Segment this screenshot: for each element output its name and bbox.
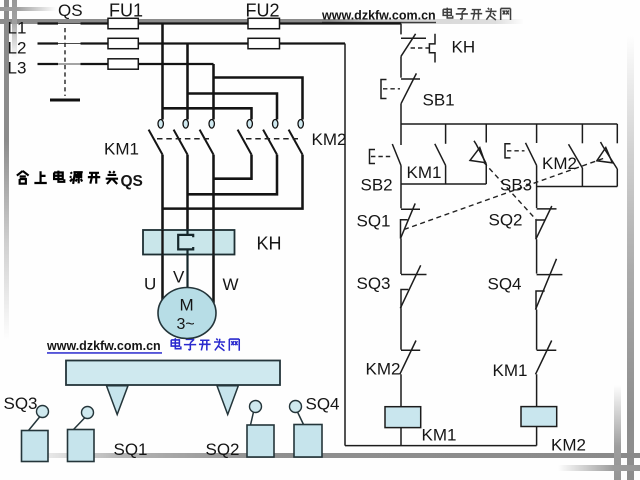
- contact KM2 NC fixed bar: [401, 349, 420, 351]
- SQ3 blade: [400, 265, 420, 308]
- wire bus to SB2: [400, 124, 402, 145]
- thermal relay KH heater box: [143, 230, 235, 255]
- wire bus horizontal: [401, 123, 617, 125]
- wire KM2 mid pole to V: [188, 155, 278, 195]
- contact KM2 aux blade: [569, 144, 583, 168]
- svg-text:U: U: [144, 275, 156, 294]
- motor M 3~: [158, 288, 216, 339]
- svg-text:KM1: KM1: [407, 163, 442, 182]
- svg-text:QS: QS: [121, 173, 143, 190]
- svg-text:SQ3: SQ3: [357, 274, 391, 293]
- svg-text:SB3: SB3: [500, 176, 532, 195]
- SQ3 notch tick: [401, 290, 408, 309]
- limit switch SQ4 NC fixed bar: [537, 274, 563, 276]
- wire KM2NC to KM1 coil: [400, 374, 402, 406]
- svg-text:W: W: [223, 275, 239, 294]
- wire KH to SB1: [400, 56, 402, 77]
- svg-text:SQ1: SQ1: [357, 212, 391, 231]
- svg-text:3~: 3~: [177, 316, 195, 333]
- SQ4 notch tick: [536, 291, 545, 310]
- svg-text:KH: KH: [452, 38, 476, 57]
- wire SQ1 to SQ3: [400, 239, 402, 275]
- svg-text:L2: L2: [8, 39, 27, 58]
- contactor KM1 terminal ovals: [158, 120, 303, 129]
- contact KM1 NC blade: [536, 341, 552, 375]
- wire KM2 left pole to W: [214, 155, 252, 179]
- limit switch SQ3 roller: [37, 406, 49, 418]
- svg-text:SQ3: SQ3: [4, 394, 38, 413]
- switch QS linkage dashed: [64, 28, 66, 96]
- wire bus drop SB3: [536, 124, 538, 143]
- switch QS handle bar: [50, 99, 80, 102]
- wire W through KH: [212, 230, 214, 255]
- coil KM1: [385, 407, 421, 428]
- SQ1 body: [68, 430, 95, 462]
- contact KH NC: fixed bar: [401, 37, 426, 39]
- svg-text:KM2: KM2: [366, 360, 401, 379]
- wire U phase down from KM1: [161, 155, 164, 300]
- svg-text:L3: L3: [8, 59, 27, 78]
- SQ2 blade: [536, 206, 552, 239]
- dashed diagonal SQ2 link: [484, 162, 537, 220]
- contact SQ1-NO triangle: [597, 148, 613, 163]
- SQ1 blade: [401, 203, 416, 238]
- svg-text:FU1: FU1: [109, 0, 143, 20]
- SQ1 lever: [74, 418, 86, 430]
- wire SQ2 to SQ4: [536, 239, 538, 273]
- wire left rail from FU2-L2: [344, 44, 346, 446]
- SQ1 notch tick: [401, 220, 408, 239]
- svg-text:L1: L1: [8, 18, 27, 37]
- svg-text:KM1: KM1: [493, 361, 528, 380]
- wire L1 horizontal: [38, 22, 402, 24]
- KH heater detour symbol: [429, 34, 435, 63]
- SQ4 blade: [536, 259, 557, 310]
- caption: heshang dianyuan kaiguan QS (bold): [17, 171, 118, 184]
- wire KM1 coil to bottom rail: [400, 428, 402, 446]
- contact KM2 NC blade: [400, 341, 416, 375]
- dashed link KH: [411, 47, 429, 49]
- wire right branch to SQ2: [536, 187, 538, 209]
- wire SQ2NO lower stub: [485, 164, 487, 184]
- wire bus drop KM1aux: [445, 124, 447, 144]
- wire KM2aux lower stub: [581, 168, 583, 187]
- switch QS blades (thin): [58, 24, 81, 65]
- button SB3 NO blade: [526, 143, 537, 166]
- SQ4 lever: [298, 412, 304, 425]
- svg-text:KM2: KM2: [312, 130, 347, 149]
- limit switch SQ4 roller: [290, 401, 302, 413]
- wire SB1 to bus: [400, 104, 402, 124]
- button SB1 blade: [401, 73, 416, 103]
- KM2 linkage dashed: [246, 138, 299, 140]
- svg-text:V: V: [173, 268, 185, 287]
- wire bus drop SQ1NO: [616, 124, 618, 143]
- svg-text:SQ2: SQ2: [206, 440, 240, 459]
- fuse FU2 pole1: [248, 18, 280, 28]
- fuse FU1 pole3: [108, 59, 138, 69]
- wire L2 drop to KM1: [186, 44, 189, 120]
- svg-text:SQ4: SQ4: [306, 395, 340, 414]
- wire bus drop SQ2NO: [485, 124, 487, 143]
- svg-text:KM1: KM1: [422, 426, 457, 445]
- wire SQ4 to KM1NC: [536, 310, 538, 350]
- wire merge bar right branch: [537, 186, 618, 188]
- limit switch SQ3 NC fixed bar: [401, 274, 427, 276]
- watermark top: dianzikaifawang CJK: [443, 8, 510, 20]
- button SB2 cap bracket: [370, 150, 376, 164]
- fuse FU1 pole2: [108, 38, 138, 48]
- dashed link SB3: [507, 150, 525, 152]
- svg-text:SQ1: SQ1: [114, 440, 148, 459]
- wire SQ1NO lower stub: [616, 169, 618, 187]
- wire L3 drop to KM1: [212, 64, 215, 120]
- SQ3 body: [22, 431, 49, 462]
- contactor KM1 main contact blades: [149, 130, 303, 155]
- wire KM1aux lower stub: [445, 165, 447, 184]
- wire L3 horizontal: [38, 63, 214, 65]
- contactor KM2 terminal ovals: [247, 120, 252, 129]
- SQ2 lever: [251, 412, 254, 425]
- button SB1 NC fixed bar: [401, 78, 420, 80]
- wire feed from FU2-L1 down: [400, 24, 402, 35]
- contact SQ2-NO triangle: [470, 148, 485, 163]
- wire SB3 lower stub: [536, 165, 538, 186]
- fuse FU2 pole2: [248, 38, 280, 48]
- wire merge bar left branch: [401, 183, 486, 185]
- svg-text:SB1: SB1: [423, 91, 455, 110]
- limit switch SQ2 NC fixed bar: [537, 208, 557, 210]
- wire bottom rail: [345, 445, 537, 447]
- svg-text:FU2: FU2: [246, 0, 280, 20]
- contact KM1 NC fixed bar: [537, 349, 557, 351]
- contact KM1 aux blade: [435, 144, 446, 166]
- KM1 linkage dashed: [157, 138, 209, 140]
- svg-text:SQ4: SQ4: [488, 275, 522, 294]
- wire SB2 to SQ1: [400, 166, 402, 209]
- wire KM1NC to KM2 coil: [536, 374, 538, 406]
- contact KH NC blade: [401, 34, 416, 57]
- limit switch SQ2 roller: [250, 401, 262, 413]
- wire L2 branch to KM2 mid pole: [188, 94, 278, 120]
- svg-text:SB2: SB2: [361, 176, 393, 195]
- wire W phase down from KM1: [212, 155, 215, 303]
- SQ2 notch tick: [536, 220, 545, 239]
- contactor KM2 main contact blades: [238, 130, 252, 155]
- worktable platform: [66, 361, 280, 386]
- coil KM2: [521, 407, 557, 427]
- button SB2 NO blade: [392, 144, 401, 166]
- wire V phase down from KM1: [186, 155, 189, 235]
- limit switch SQ1 roller: [82, 407, 94, 419]
- svg-text:SQ2: SQ2: [489, 211, 523, 230]
- SQ3 lever: [29, 417, 41, 431]
- dashed link SB2: [371, 156, 392, 158]
- svg-text:www.dzkfw.com.cn: www.dzkfw.com.cn: [46, 339, 161, 353]
- svg-text:www.dzkfw.com.cn: www.dzkfw.com.cn: [321, 9, 436, 23]
- button SB3 cap bracket: [505, 144, 511, 158]
- wire KM2 right pole to U: [163, 155, 303, 209]
- svg-text:M: M: [180, 296, 194, 315]
- dashed diagonal SQ1 link: [404, 158, 606, 230]
- KH heater element jog on V wire: [178, 230, 193, 289]
- watermark bottom: dianzikaifawang CJK: [171, 338, 239, 351]
- svg-text:KH: KH: [257, 234, 282, 254]
- SQ2 body: [247, 425, 274, 457]
- button SB1 cap bracket: [381, 80, 387, 99]
- wire L1 drop to KM1: [161, 24, 164, 120]
- cam dog right: [217, 386, 238, 415]
- wire U through KH: [161, 230, 163, 255]
- wire bus drop KM2aux: [581, 124, 583, 143]
- svg-text:KM2: KM2: [542, 154, 577, 173]
- svg-text:KM1: KM1: [104, 140, 139, 159]
- fuse FU1 pole1: [108, 18, 138, 28]
- frame bars (decorative): [0, 19, 526, 24]
- wire L1 branch to KM2 left pole: [163, 108, 252, 119]
- contact SQ2-NO blade with tip: [474, 141, 486, 164]
- wire L3 branch to KM2 right pole: [214, 78, 303, 120]
- svg-text:KM2: KM2: [551, 436, 586, 455]
- SQ4 body: [294, 425, 322, 458]
- limit switch SQ1 NC fixed bar: [401, 208, 420, 210]
- contact SQ1-NO blade with tip: [601, 142, 618, 169]
- svg-text:QS: QS: [58, 1, 83, 20]
- wire KM2 coil to bottom rail: [536, 427, 538, 446]
- wire SQ3 to KM2NC: [400, 308, 402, 349]
- wire L2 horizontal: [38, 42, 346, 44]
- dashed link SB1: [383, 88, 400, 90]
- cam dog left: [107, 386, 129, 415]
